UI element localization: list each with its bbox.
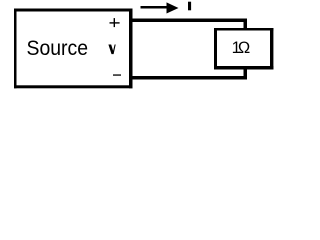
wire top rail	[131, 19, 247, 23]
source box	[14, 9, 133, 89]
wire bottom vertical segment from resistor	[244, 68, 248, 80]
voltage label v	[108, 45, 115, 55]
plus polarity mark	[110, 18, 120, 27]
svg-text:Source: Source	[27, 35, 89, 60]
current direction arrow	[141, 2, 179, 13]
resistor box	[214, 28, 273, 70]
value label 1Ω	[232, 39, 251, 57]
wire top vertical segment into resistor	[244, 19, 248, 31]
current label I	[188, 2, 191, 11]
wire bottom rail	[131, 76, 247, 80]
minus polarity mark	[113, 74, 121, 75]
svg-text:Ω: Ω	[238, 39, 250, 57]
